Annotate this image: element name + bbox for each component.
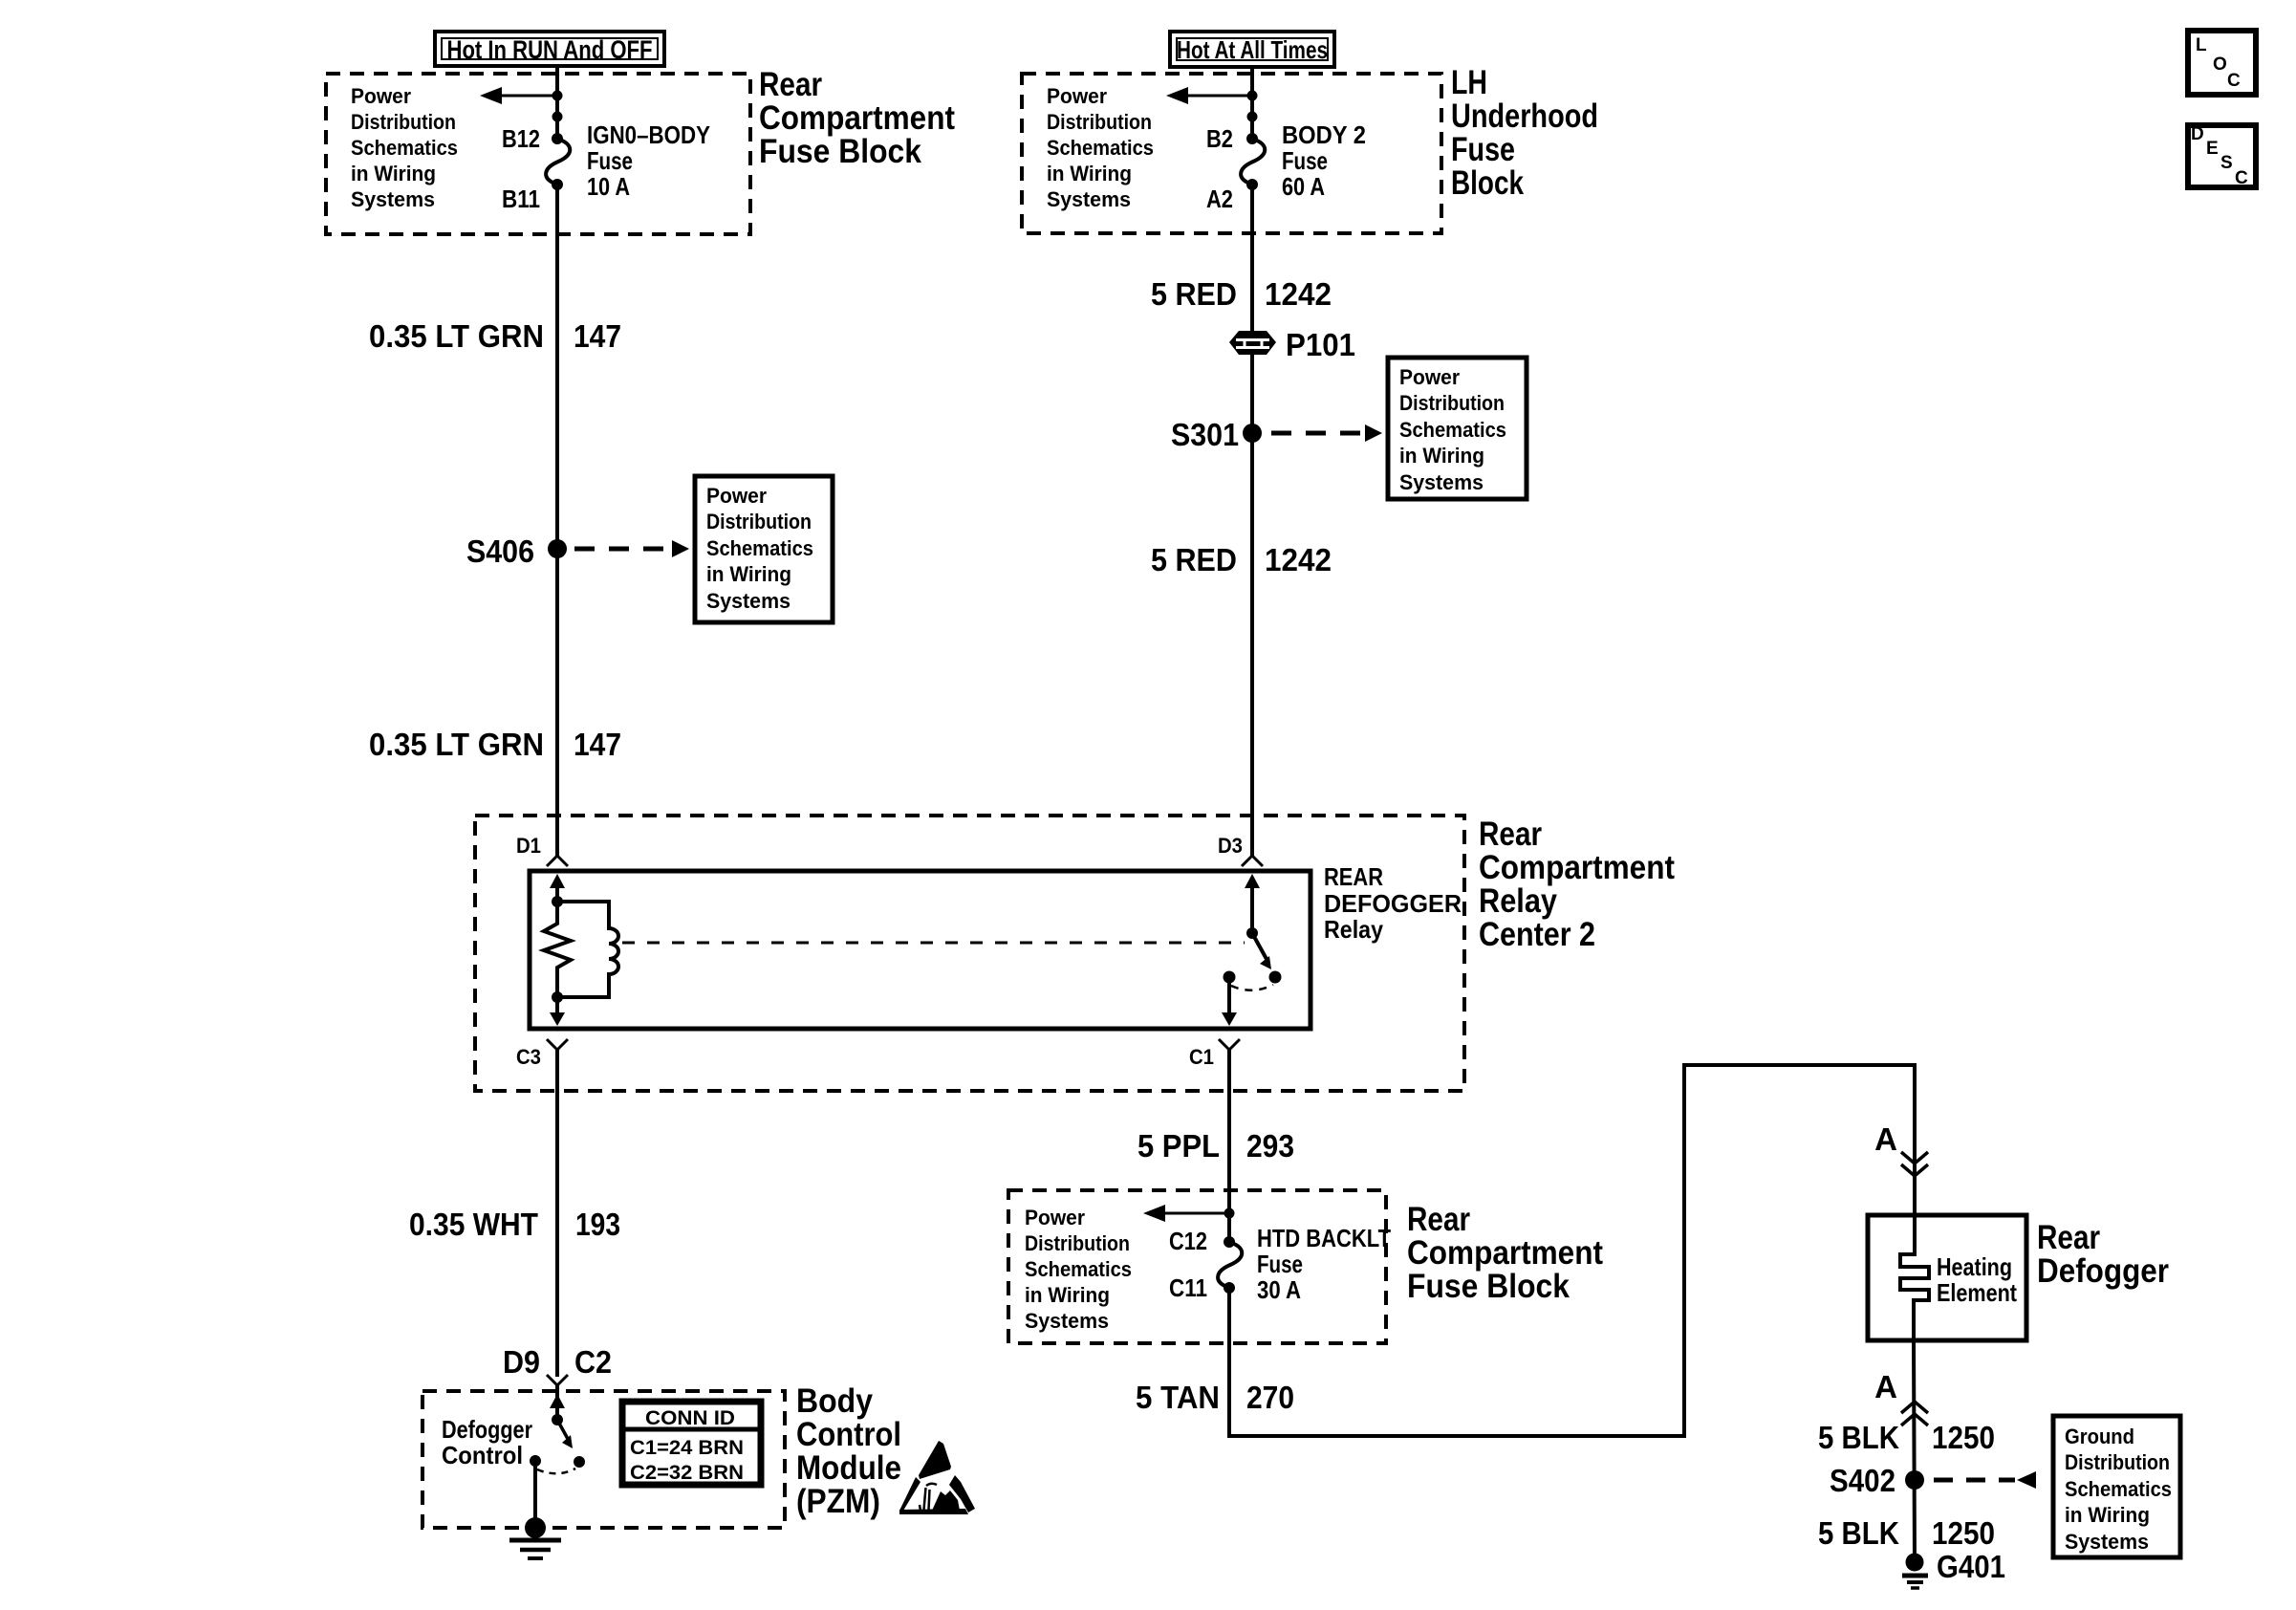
svg-text:293: 293 [1246,1128,1294,1164]
svg-text:Systems: Systems [351,187,435,211]
junction dot [1247,91,1258,101]
label Heating Element [1937,1252,2017,1307]
svg-text:Fuse Block: Fuse Block [759,133,921,170]
svg-text:P101: P101 [1286,327,1355,362]
svg-text:in Wiring: in Wiring [706,562,791,586]
DESC index box [2188,124,2256,188]
relay switch arm with arrowhead [1252,933,1271,969]
fuse terminal C11 dot [1224,1282,1235,1294]
wire label 5 PPL 293 [1137,1128,1294,1164]
svg-text:in Wiring: in Wiring [1399,444,1484,468]
svg-text:Heating: Heating [1937,1252,2012,1281]
svg-text:S406: S406 [466,533,534,569]
fuse name IGN0-BODY Fuse 10 A [587,120,710,201]
svg-text:10 A: 10 A [587,172,630,201]
fuse IGN0-BODY 10A terminal B12 dot [552,133,563,144]
svg-text:D9: D9 [503,1344,540,1380]
svg-text:(PZM): (PZM) [796,1483,880,1520]
relay switch travel dashed arc [1231,985,1273,990]
relay switch input arrow (up) from D3 [1245,874,1260,933]
svg-text:Fuse: Fuse [587,146,633,175]
svg-text:Systems: Systems [2065,1530,2149,1554]
Rear Compartment Fuse Block (dashed box) [326,74,750,234]
svg-text:Relay: Relay [1324,915,1383,944]
connector chevron at C3 [547,1039,568,1050]
svg-text:CONN ID: CONN ID [645,1407,735,1429]
ground G401 [1902,1549,2005,1588]
reference text Power Distribution Schematics in Wiring Systems [1025,1206,1132,1333]
relay coil top node [552,896,563,907]
fuse IGN0-BODY 10A element [546,139,570,185]
defogger control input arrow (up) [550,1394,565,1420]
svg-text:Schematics: Schematics [1399,418,1506,442]
arrow to power distribution schematics [480,87,557,104]
splice S301 [1171,417,1262,452]
svg-text:193: 193 [575,1207,620,1242]
svg-text:Fuse: Fuse [1282,146,1328,175]
wire label 0.35 LT GRN 147 [369,318,621,354]
svg-text:in Wiring: in Wiring [1047,162,1132,185]
svg-text:1242: 1242 [1265,542,1332,577]
svg-text:LH: LH [1451,64,1487,101]
svg-text:O: O [2213,54,2227,75]
svg-text:Fuse: Fuse [1451,131,1515,168]
svg-text:C: C [2235,168,2248,188]
REAR DEFOGGER relay box [530,871,1310,1029]
grommet P101 [1229,327,1355,362]
wire stub into BCM [555,1385,559,1398]
svg-text:D1: D1 [516,834,541,858]
feed label "Hot At All Times" [1170,32,1334,67]
dashed reference arrow from S301 [1271,424,1382,442]
svg-text:BODY 2: BODY 2 [1282,120,1366,149]
svg-text:B2: B2 [1206,124,1233,153]
connector chevron at D1 [547,856,568,866]
wire label 5 RED 1242 [1151,276,1332,312]
svg-text:Block: Block [1451,164,1524,202]
svg-text:C1=24 BRN: C1=24 BRN [630,1437,744,1459]
svg-text:Hot In RUN And OFF: Hot In RUN And OFF [447,35,653,64]
component name LH Underhood Fuse Block [1451,64,1598,202]
fuse HTD BACKLT 30A element [1218,1242,1242,1288]
svg-text:Schematics: Schematics [706,536,813,560]
component name Rear Compartment Relay Center 2 [1479,816,1675,953]
wire label 5 BLK 1250 (second) [1818,1515,1995,1551]
junction dot [1224,1208,1235,1219]
connector chevron at C2 [547,1375,568,1385]
svg-text:Compartment: Compartment [759,99,955,137]
svg-text:Underhood: Underhood [1451,98,1598,135]
relay coil bottom node [552,991,563,1003]
svg-text:Distribution: Distribution [1025,1231,1130,1255]
relay coil inductor [557,902,618,997]
svg-text:Control: Control [796,1416,901,1453]
fuse HTD BACKLT 30A terminal C12 dot [1224,1236,1235,1248]
wire from switch to internal ground [533,1461,537,1528]
svg-text:Rear: Rear [759,66,822,103]
svg-text:Compartment: Compartment [1479,849,1675,886]
svg-text:Power: Power [1047,84,1107,108]
svg-text:0.35 LT GRN: 0.35 LT GRN [369,727,544,762]
svg-text:5 BLK: 5 BLK [1818,1515,1899,1551]
svg-text:60 A: 60 A [1282,172,1325,201]
svg-text:G401: G401 [1937,1549,2005,1584]
component name Rear Defogger [2037,1219,2169,1290]
dashed reference arrow from S406 [574,540,689,557]
switch travel dashed arc [537,1469,575,1473]
svg-text:Power: Power [1399,365,1460,389]
wire from Hot In RUN And OFF into fuse block [555,66,559,139]
svg-text:Distribution: Distribution [2065,1450,2170,1474]
wire label 5 TAN 270 [1136,1380,1294,1415]
wire circuit 1242 from fuse A2 to relay D3 [1250,185,1254,856]
svg-text:Body: Body [796,1382,873,1420]
svg-text:E: E [2206,139,2219,159]
svg-text:L: L [2196,35,2207,55]
svg-text:Defogger: Defogger [442,1415,532,1444]
svg-text:Systems: Systems [1399,470,1484,494]
svg-text:30 A: 30 A [1257,1275,1301,1304]
svg-text:S402: S402 [1830,1463,1895,1498]
svg-text:1250: 1250 [1932,1420,1995,1455]
svg-text:S301: S301 [1171,417,1239,452]
wire label 0.35 WHT 193 [409,1207,620,1242]
switch contact dot (arm side) [574,1456,585,1468]
svg-text:1250: 1250 [1932,1515,1995,1551]
wire circuit 193 from relay C3 to BCM [555,1050,559,1377]
reference text Power Distribution Schematics in Wiring Systems [351,84,458,211]
label Defogger Control [442,1415,532,1469]
svg-text:0.35 LT GRN: 0.35 LT GRN [369,318,544,354]
svg-text:HTD BACKLT: HTD BACKLT [1257,1224,1391,1252]
splice S402 [1830,1463,1924,1498]
relay actuation dashed link [622,942,1245,945]
svg-text:Schematics: Schematics [1047,136,1154,160]
switch contact dot (ground side) [530,1455,541,1467]
wire circuit 293 from relay C1 to fuse block [1227,1050,1231,1242]
svg-text:in Wiring: in Wiring [351,162,436,185]
svg-text:B11: B11 [502,185,540,213]
svg-text:Systems: Systems [1025,1309,1109,1333]
relay switch output arrow (down) to C1 [1222,977,1237,1026]
CONN ID table [622,1402,761,1485]
svg-text:Control: Control [442,1441,523,1469]
connector chevron at C1 [1219,1039,1240,1050]
fuse BODY 2 60A element [1241,139,1265,185]
svg-text:in Wiring: in Wiring [2065,1503,2150,1527]
reference text Power Distribution Schematics in Wiring Systems [1047,84,1154,211]
svg-text:DEFOGGER: DEFOGGER [1324,889,1462,918]
svg-text:0.35 WHT: 0.35 WHT [409,1207,538,1242]
fuse name BODY 2 Fuse 60 A [1282,120,1366,201]
BCM internal ground [509,1517,561,1558]
relay name REAR DEFOGGER Relay [1324,862,1462,944]
svg-text:Ground: Ground [2065,1425,2134,1448]
svg-text:Fuse: Fuse [1257,1250,1303,1278]
svg-text:270: 270 [1246,1380,1294,1415]
svg-text:147: 147 [574,318,621,354]
fuse terminal A2 dot [1246,179,1258,190]
wire label 0.35 LT GRN 147 (second) [369,727,621,762]
svg-text:5 PPL: 5 PPL [1137,1128,1220,1164]
svg-text:Distribution: Distribution [1047,110,1152,134]
svg-text:Power: Power [706,484,767,508]
wire circuit 147 from fuse B11 to relay D1 [555,185,559,856]
LOC index box [2188,31,2256,95]
heating element symbol [1900,1215,1929,1340]
Rear Compartment Relay Center 2 (dashed box) [475,816,1464,1091]
svg-text:REAR: REAR [1324,862,1383,891]
Rear Compartment Fuse Block (dashed box, HTD BACKLT) [1008,1190,1386,1343]
svg-text:Rear: Rear [1407,1201,1470,1238]
svg-text:1242: 1242 [1265,276,1332,312]
component name Body Control Module (PZM) [796,1382,901,1520]
splice S406 [466,533,567,569]
svg-text:Distribution: Distribution [1399,391,1505,415]
svg-text:in Wiring: in Wiring [1025,1283,1110,1307]
inline connector chevrons (down) [1901,1152,1928,1176]
svg-text:Center 2: Center 2 [1479,916,1595,953]
wire circuit 1250 from rear defogger to ground [1914,1340,1915,1562]
connector chevron at D3 [1242,856,1263,866]
wire circuit 270 from fuse C11 to rear defogger [1229,1065,1915,1436]
svg-text:Defogger: Defogger [2037,1252,2169,1290]
svg-text:IGN0–BODY: IGN0–BODY [587,120,710,149]
defogger control switch arm with arrowhead [557,1420,573,1448]
svg-text:C2=32 BRN: C2=32 BRN [630,1462,744,1484]
reference box Ground Distribution Schematics in Wiring Systems [2053,1416,2180,1557]
component name Rear Compartment Fuse Block [759,66,955,170]
svg-text:C11: C11 [1169,1273,1207,1302]
svg-text:A2: A2 [1206,185,1233,213]
defogger control switch pivot dot [552,1414,563,1425]
svg-text:Fuse Block: Fuse Block [1407,1268,1570,1305]
fuse BODY 2 60A terminal B2 dot [1246,133,1258,144]
svg-text:Distribution: Distribution [351,110,456,134]
reference box Power Distribution Schematics in Wiring Systems [1388,358,1527,499]
svg-text:C2: C2 [574,1344,612,1380]
junction dot [552,91,563,101]
svg-text:Power: Power [351,84,411,108]
relay coil output arrow (down) [550,997,565,1026]
relay coil resistor [544,902,571,997]
ESD sensitive device symbol [899,1441,975,1514]
svg-text:5 RED: 5 RED [1151,276,1237,312]
svg-text:C: C [2227,71,2241,91]
svg-text:5 RED: 5 RED [1151,542,1237,577]
relay coil input arrow (up) [550,874,565,902]
relay switch contact dot (output) [1224,971,1236,984]
svg-text:Distribution: Distribution [706,510,812,533]
svg-text:C1: C1 [1189,1045,1214,1069]
svg-text:Schematics: Schematics [2065,1477,2172,1501]
component name Rear Compartment Fuse Block [1407,1201,1603,1305]
relay switch pivot dot [1246,927,1258,939]
dashed reference arrow to S402 [1934,1471,2036,1489]
arrow to power distribution schematics [1143,1205,1229,1222]
reference box Power Distribution Schematics in Wiring Systems [695,476,833,622]
svg-text:Systems: Systems [1047,187,1131,211]
fuse terminal B11 dot [552,179,563,190]
svg-text:Systems: Systems [706,589,791,613]
svg-text:Schematics: Schematics [1025,1257,1132,1281]
svg-text:Element: Element [1937,1278,2017,1307]
svg-text:Hot At All Times: Hot At All Times [1177,35,1328,64]
svg-text:Rear: Rear [1479,816,1542,853]
wire label 5 BLK 1250 [1818,1420,1995,1455]
inline connector chevrons (up) [1901,1402,1928,1425]
svg-text:C3: C3 [516,1045,541,1069]
wire from Hot At All Times into fuse block [1250,67,1254,139]
svg-text:A: A [1874,1369,1897,1404]
junction dot [552,112,563,122]
LH Underhood Fuse Block (dashed box) [1022,74,1441,233]
svg-text:A: A [1874,1121,1897,1157]
svg-text:5 BLK: 5 BLK [1818,1420,1899,1455]
feed label "Hot In RUN And OFF" [435,32,664,66]
svg-text:Rear: Rear [2037,1219,2100,1256]
svg-text:147: 147 [574,727,621,762]
relay switch contact dot (arm side) [1269,971,1282,984]
svg-text:Module: Module [796,1449,901,1487]
svg-text:C12: C12 [1169,1227,1207,1255]
svg-text:Schematics: Schematics [351,136,458,160]
wire label 5 RED 1242 (second) [1151,542,1332,577]
svg-text:Power: Power [1025,1206,1085,1229]
svg-text:Compartment: Compartment [1407,1234,1603,1272]
Body Control Module (dashed box) [422,1391,785,1528]
Rear Defogger box [1868,1215,2026,1340]
svg-text:D3: D3 [1218,834,1243,858]
arrow to power distribution schematics [1166,87,1252,104]
svg-text:S: S [2220,153,2233,173]
junction dot [1247,112,1258,122]
svg-text:5 TAN: 5 TAN [1136,1380,1220,1415]
svg-text:B12: B12 [502,124,540,153]
svg-text:Relay: Relay [1479,882,1557,920]
fuse name HTD BACKLT Fuse 30 A [1257,1224,1391,1304]
svg-text:D: D [2191,124,2204,144]
